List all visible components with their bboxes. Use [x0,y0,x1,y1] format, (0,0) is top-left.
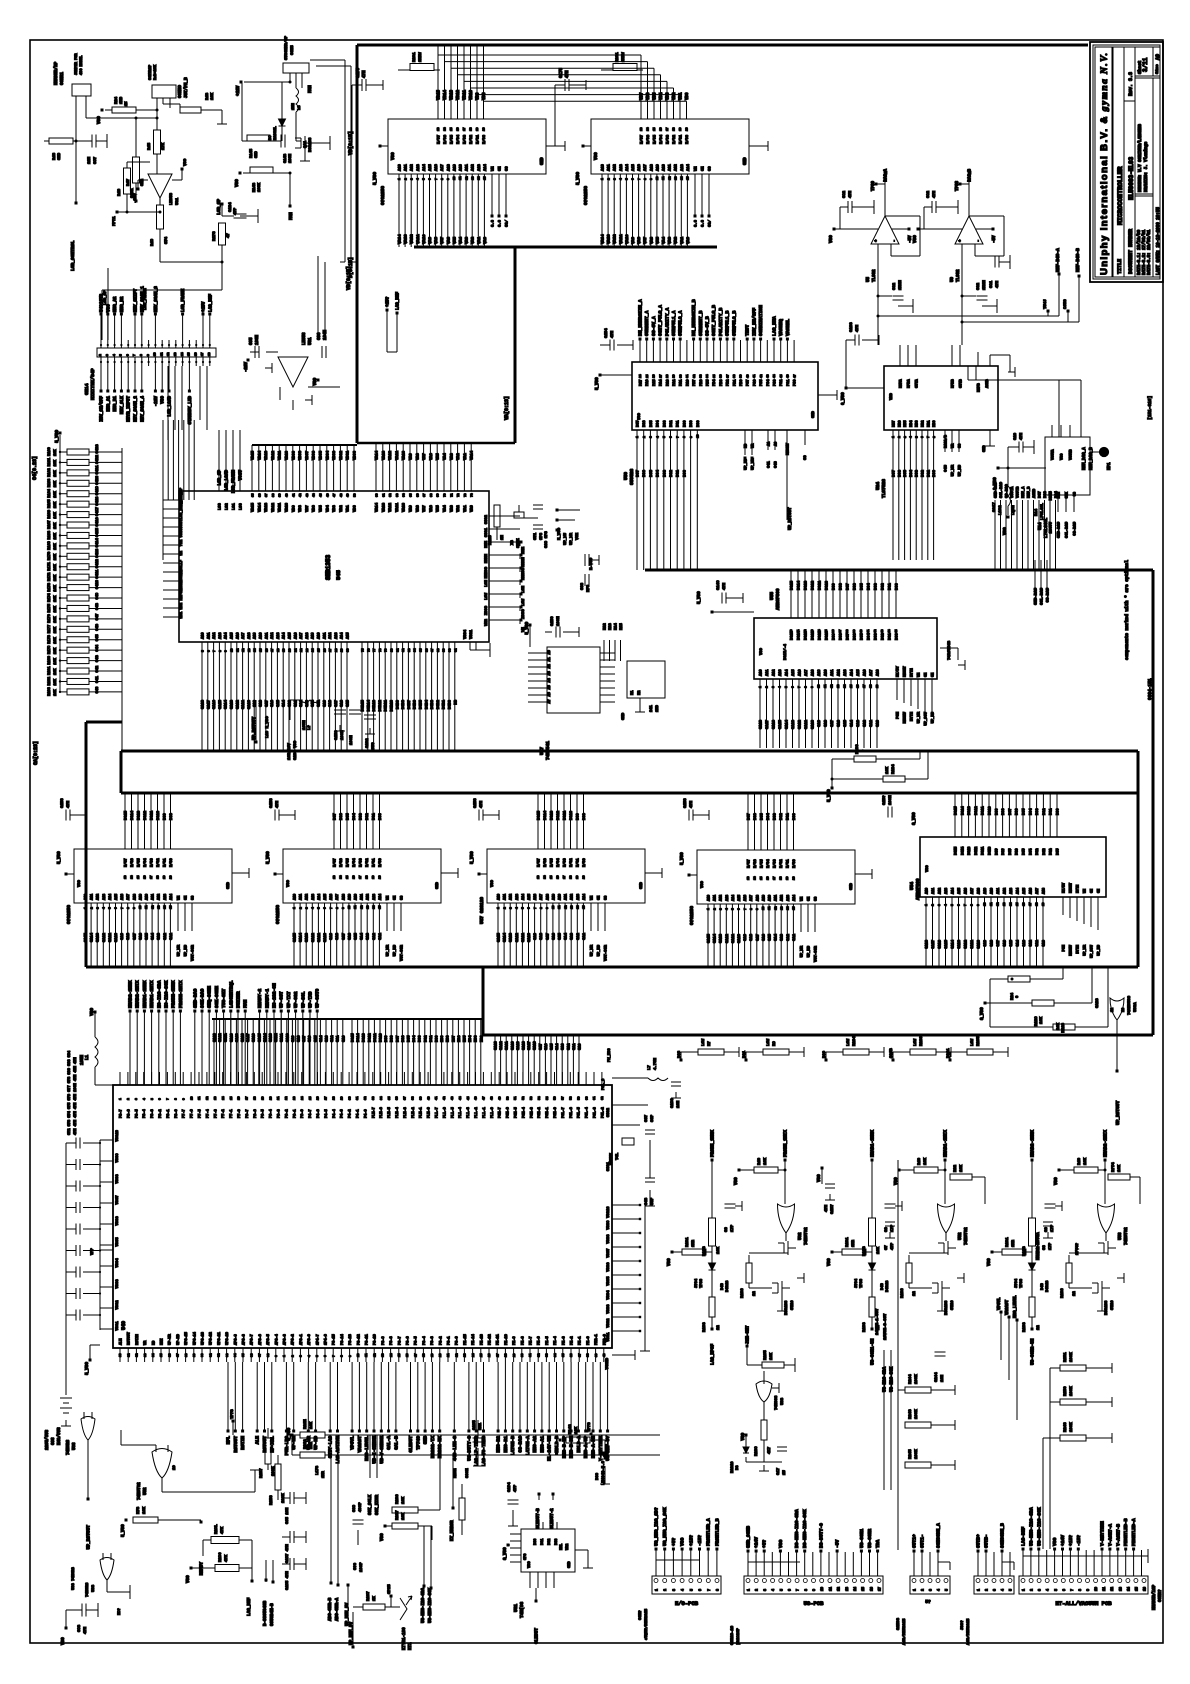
svg-text:OE: OE [1091,889,1095,893]
svg-text:C17: C17 [777,1467,781,1475]
svg-text:VA4: VA4 [444,452,448,460]
svg-text:37: 37 [839,629,842,633]
svg-text:VCC: VCC [735,1177,739,1185]
svg-text:C419: C419 [96,485,100,495]
svg-text:76: 76 [367,648,370,652]
svg-text:E/02: E/02 [672,134,677,144]
svg-text:35: 35 [252,493,255,497]
svg-text:REF_DAC_A: REF_DAC_A [1083,447,1087,470]
svg-text:READY-2: READY-2 [257,988,263,1008]
svg-text:VCSU: VCSU [180,528,184,538]
svg-text:23: 23 [293,1096,296,1100]
svg-text:R133: R133 [703,1322,707,1332]
svg-text:VD0: VD0 [686,92,690,100]
svg-text:E/04: E/04 [766,859,771,868]
svg-text:ST10: ST10 [1111,1300,1115,1310]
svg-text:U5: U5 [867,276,871,282]
svg-text:US-DUTY-C: US-DUTY-C [466,1436,472,1461]
svg-text:47N: 47N [825,1204,829,1212]
svg-text:D01: D01 [430,1036,434,1042]
svg-text:36: 36 [720,374,723,378]
svg-text:R243: R243 [909,1409,913,1419]
svg-text:D010: D010 [826,580,830,590]
svg-text:D07: D07 [1009,809,1013,815]
svg-text:PA4: PA4 [660,379,664,386]
svg-text:241: 241 [650,704,654,712]
svg-text:PZ-10: PZ-10 [505,1334,509,1345]
svg-text:VA3: VA3 [450,452,454,460]
svg-text:3: 3 [930,1589,934,1591]
svg-text:R164: R164 [48,488,52,497]
svg-text:PZ-8: PZ-8 [521,1336,525,1345]
svg-text:HENCS: HENCS [522,567,526,580]
svg-text:A14: A14 [952,888,956,894]
svg-text:83: 83 [408,648,411,652]
svg-text:CA10: CA10 [738,933,742,943]
svg-text:18: 18 [208,352,211,356]
svg-text:VA3: VA3 [466,236,470,244]
svg-text:D09: D09 [577,812,581,820]
svg-text:10UH: 10UH [303,720,307,730]
svg-text:U491STR: U491STR [100,294,105,312]
svg-text:16: 16 [144,875,147,879]
svg-text:P3-9: P3-9 [382,1336,386,1345]
svg-text:R24: R24 [115,96,119,104]
svg-text:R131: R131 [1006,1237,1010,1247]
svg-text:POL-2: POL-2 [601,1107,605,1118]
svg-text:10K: 10K [1084,1157,1088,1165]
svg-text:VA8: VA8 [416,504,420,512]
svg-text:PZ2-1: PZ2-1 [595,1334,599,1345]
svg-text:A15: A15 [347,633,351,639]
svg-text:C32: C32 [893,282,897,290]
svg-text:LAS-DEF: LAS-DEF [1021,1526,1027,1546]
svg-text:VCC: VCC [818,1174,822,1182]
svg-text:D011: D011 [819,580,823,590]
svg-text:85C528: 85C528 [629,468,635,485]
svg-text:D06: D06 [402,1036,406,1042]
svg-text:VD13: VD13 [451,89,455,100]
svg-text:58: 58 [570,1096,573,1100]
svg-text:13: 13 [248,648,251,652]
svg-text:VD12: VD12 [457,89,461,100]
svg-text:BSS138: BSS138 [945,1300,949,1315]
svg-text:A13: A13 [164,894,168,900]
svg-text:CA4: CA4 [152,932,156,940]
svg-text:8: 8 [175,1098,178,1100]
svg-text:REF_A: REF_A [1022,486,1026,498]
svg-text:TITLE: TITLE [1117,259,1123,274]
svg-text:E/05: E/05 [760,859,765,868]
svg-text:25: 25 [646,374,649,378]
svg-text:47: 47 [793,374,796,378]
svg-text:SONCODE_B: SONCODE_B [1000,1523,1006,1548]
svg-text:47K: 47K [221,1526,225,1534]
svg-text:VSS9: VSS9 [607,1220,611,1230]
svg-text:42: 42 [1036,848,1039,852]
svg-text:C?62256: C?62256 [66,905,72,924]
svg-text:A15: A15 [429,163,433,171]
svg-text:P6-4: P6-4 [270,1109,274,1118]
svg-text:VCC: VCC [926,865,930,872]
svg-text:CA10: CA10 [324,932,328,942]
svg-text:sT@N?/DMJ2015: sT@N?/DMJ2015 [644,1608,649,1640]
svg-text:CA3: CA3 [367,932,371,940]
svg-text:53: 53 [530,1096,533,1100]
svg-text:3.0: 3.0 [702,219,706,227]
svg-text:20: 20 [379,875,382,879]
svg-text:E2: E2 [638,690,642,695]
svg-text:20: 20 [793,876,796,880]
svg-text:220K: 220K [131,188,135,198]
svg-text:KEY_SCAN_2: KEY_SCAN_2 [134,396,139,422]
svg-text:71: 71 [450,493,453,497]
svg-text:BAS16: BAS16 [731,1461,735,1473]
svg-text:A17: A17 [441,163,445,171]
svg-text:220U/6V3: 220U/6V3 [45,1429,50,1450]
svg-text:10K: 10K [402,1496,406,1504]
svg-text:D0B13: D0B13 [373,699,377,711]
svg-text:VCC: VCC [668,1258,672,1266]
svg-text:R43: R43 [206,92,210,100]
svg-text:POL-6: POL-6 [570,1107,574,1118]
svg-text:2P4-6: 2P4-6 [325,1334,329,1345]
svg-text:C48: C48 [96,602,100,610]
svg-text:D01: D01 [677,421,681,427]
svg-text:E/07: E/07 [537,858,542,867]
svg-text:L173: L173 [316,1465,320,1475]
svg-text:16: 16 [194,352,197,356]
svg-text:C187 47N: C187 47N [286,1544,290,1563]
svg-text:REF-B4C-B: REF-B4C-B [1076,248,1081,272]
svg-text:D01: D01 [927,469,931,477]
svg-text:AP3-7: AP3-7 [251,1334,255,1345]
svg-text:LOW: LOW [767,1038,771,1046]
svg-text:27K: 27K [162,142,166,150]
svg-text:U14: U14 [1039,522,1043,530]
svg-text:VA1: VA1 [478,236,482,244]
svg-text:YVE: YVE [180,539,184,547]
svg-text:10K: 10K [54,511,58,518]
svg-text:CS: CS [192,896,196,900]
svg-text:GND: GND [541,157,545,165]
svg-text:CA7: CA7 [546,932,550,940]
svg-text:A16: A16 [534,894,538,900]
svg-text:VCC: VCC [235,179,240,187]
svg-text:U57 62S126: U57 62S126 [479,897,485,924]
svg-text:PROBE-1MRX: PROBE-1MRX [171,980,177,1008]
svg-text:C133 VCC: C133 VCC [294,740,298,760]
svg-text:LM358: LM358 [303,332,307,345]
svg-text:D07: D07 [748,812,752,820]
svg-text:CA8: CA8 [750,933,754,941]
svg-text:C91: C91 [990,280,994,288]
svg-text:VA6: VA6 [447,236,451,244]
svg-text:P3-7: P3-7 [398,1336,402,1345]
svg-text:5_VCC: 5_VCC [576,172,581,185]
svg-text:17P: 17P [731,1224,735,1232]
svg-text:DATE-3.1: 13/10/99: DATE-3.1: 13/10/99 [1137,229,1142,275]
svg-text:CA2: CA2 [787,933,791,941]
svg-text:P3-10: P3-10 [374,1334,378,1345]
svg-text:CA20: CA20 [230,1033,234,1042]
svg-text:43: 43 [881,629,884,633]
svg-text:T4L: T4L [616,1152,620,1160]
svg-text:VPOVL: VPOVL [350,1436,356,1450]
svg-text:24: 24 [639,374,642,378]
svg-text:E9?: E9? [118,1607,122,1615]
svg-text:CA10: CA10 [286,1033,290,1042]
svg-text:CA15: CA15 [945,940,949,949]
svg-text:CA14: CA14 [786,719,790,729]
svg-text:10K: 10K [54,470,58,477]
svg-text:P7-0: P7-0 [238,1109,242,1118]
svg-text:6P8: 6P8 [540,532,544,540]
svg-text:P3-15: P3-15 [333,1334,337,1345]
svg-text:74HCT02: 74HCT02 [805,1227,809,1245]
svg-text:CS: CS [1074,492,1078,496]
svg-text:2: 2 [1031,1589,1035,1591]
svg-text:12: 12 [206,1096,209,1100]
svg-text:R201: R201 [616,52,620,62]
svg-text:CA4: CA4 [361,932,365,940]
svg-text:VCC6: VCC6 [116,1216,120,1226]
svg-text:10K: 10K [54,480,58,487]
svg-text:38: 38 [846,629,849,633]
svg-text:A13: A13 [417,163,421,171]
svg-text:1: 1 [748,1589,752,1591]
svg-text:18: 18 [470,127,473,131]
svg-text:45: 45 [467,1096,470,1100]
svg-text:10K: 10K [54,563,58,570]
svg-text:D09: D09 [995,809,999,815]
svg-text:CA7: CA7 [335,699,339,707]
svg-text:VA6: VA6 [430,504,434,512]
svg-text:R182: R182 [48,677,52,686]
svg-text:33: 33 [811,629,814,633]
svg-text:P3-14: P3-14 [341,1333,345,1345]
svg-text:VCC: VCC [392,152,396,160]
svg-text:LM358: LM358 [170,192,174,205]
svg-text:R235: R235 [977,1036,981,1046]
svg-text:PC3: PC3 [774,380,778,386]
svg-text:VA10: VA10 [626,234,630,244]
svg-text:6: 6 [159,1098,162,1100]
svg-text:A11: A11 [608,163,612,171]
svg-text:HEAD1-20V3A: HEAD1-20V3A [1037,1232,1041,1260]
svg-text:11: 11 [1103,1587,1107,1591]
svg-text:GP25: GP25 [388,1584,392,1594]
svg-text:A12: A12 [773,670,777,676]
svg-text:32: 32 [693,374,696,378]
svg-text:36: 36 [396,1096,399,1100]
svg-text:CLK: CLK [1066,491,1070,498]
svg-text:D0B9: D0B9 [396,699,400,709]
svg-text:U24: U24 [875,482,881,490]
svg-text:BHE: BHE [522,546,526,554]
svg-text:5: 5 [151,1098,154,1100]
svg-text:A15: A15 [792,670,796,676]
svg-text:4: 4 [1047,1589,1051,1591]
svg-text:C?62256: C?62256 [583,186,589,205]
svg-text:A14: A14 [379,894,383,900]
svg-text:47N: 47N [67,800,71,808]
svg-text:R133: R133 [863,1322,867,1332]
svg-text:CA12: CA12 [103,932,107,942]
svg-text:14: 14 [181,352,184,356]
svg-text:17: 17 [463,127,466,131]
svg-text:PLL-3: PLL-3 [467,1107,471,1118]
svg-text:POL_0: POL_0 [602,1078,606,1090]
svg-text:OUT1-: OUT1- [920,1534,926,1548]
svg-text:POH-7: POH-7 [499,1107,503,1118]
svg-text:CA13: CA13 [510,932,514,942]
svg-text:P8-7: P8-7 [120,1109,124,1118]
svg-text:HEADER/2P: HEADER/2P [54,61,59,85]
svg-text:P7-2: P7-2 [222,1109,226,1118]
svg-text:A14: A14 [170,894,174,900]
svg-text:+24V: +24V [754,1537,760,1548]
svg-text:A16: A16 [435,163,439,171]
svg-text:E/07: E/07 [124,858,129,867]
svg-text:31: 31 [961,848,964,852]
svg-text:VD10: VD10 [286,450,290,460]
svg-text:SCK-SCNE: SCK-SCNE [214,986,220,1008]
svg-text:A11: A11 [565,894,569,900]
svg-text:DB3: DB3 [916,421,920,427]
svg-text:2M: 2M [501,535,505,540]
svg-text:U55: U55 [769,592,775,600]
svg-text:I05: I05 [464,1036,468,1042]
svg-text:CA8: CA8 [336,932,340,940]
svg-text:A12: A12 [97,894,101,900]
svg-text:PROBE_1MRX: PROBE_1MRX [710,1130,716,1157]
svg-text:VCC: VCC [90,1008,95,1016]
svg-text:LCDCENTRQL: LCDCENTRQL [228,980,234,1008]
svg-text:13: 13 [537,875,540,879]
svg-text:C44: C44 [96,644,100,652]
svg-text:5_VCC: 5_VCC [58,851,62,864]
svg-text:P4-4: P4-4 [333,1109,337,1118]
svg-text:D05: D05 [761,812,765,820]
svg-text:74HCT02: 74HCT02 [138,1482,142,1500]
svg-text:D02: D02 [424,1036,428,1042]
svg-text:A10: A10 [559,894,563,900]
svg-text:A10: A10 [294,894,298,900]
svg-text:P6-0: P6-0 [301,1109,305,1118]
svg-text:36: 36 [832,629,835,633]
svg-text:PC0: PC0 [794,380,798,386]
svg-text:REF0?: REF0? [180,588,184,600]
svg-text:CA0: CA0 [342,1036,346,1042]
svg-text:E/03: E/03 [150,858,155,867]
svg-text:CA2: CA2 [1030,940,1034,946]
svg-text:B4S18: B4S18 [726,1280,730,1292]
svg-text:PZ-5: PZ-5 [546,1336,550,1345]
svg-text:NRL: NRL [560,1544,564,1550]
svg-text:-15?: -15? [697,1535,703,1546]
svg-text:D08: D08 [391,1036,395,1042]
svg-text:AM29F800: AM29F800 [915,878,921,900]
svg-text:5_VCC: 5_VCC [828,789,832,802]
svg-text:D09: D09 [164,812,168,820]
svg-text:5_VCC: 5_VCC [288,1428,292,1441]
svg-text:LAS_RPOF: LAS_RPOF [711,1344,716,1365]
svg-text:A12: A12 [720,895,724,901]
svg-text:VCC: VCC [638,412,642,420]
svg-text:LAST SAVE: 10-19-2000 10:55: LAST SAVE: 10-19-2000 10:55 [1157,207,1161,275]
svg-text:I04: I04 [469,1035,473,1042]
svg-text:R73: R73 [137,1506,141,1514]
svg-text:47P: 47P [234,207,238,215]
svg-text:25: 25 [309,1096,312,1100]
svg-text:CA17: CA17 [528,1041,532,1050]
svg-text:C1?4: C1?4 [508,1482,512,1492]
svg-text:CA17: CA17 [932,940,936,949]
svg-text:OSC2: OSC2 [607,1107,611,1117]
svg-text:A16: A16 [744,895,748,901]
svg-text:D014: D014 [544,810,548,820]
svg-text:100N: 100N [256,334,260,345]
svg-text:U50: U50 [623,472,629,480]
svg-text:R173: R173 [48,583,52,592]
svg-text:D00: D00 [933,469,937,477]
svg-text:D01: D01 [373,812,377,820]
svg-text:14: 14 [1127,1587,1131,1591]
svg-text:3/11: 3/11 [1142,57,1149,72]
svg-text:10: 10 [154,352,157,356]
svg-text:66: 66 [416,493,419,497]
svg-text:15: 15 [550,875,553,879]
svg-text:A16: A16 [121,894,125,900]
svg-text:LAS_DEF: LAS_DEF [208,294,213,312]
svg-text:P3-2: P3-2 [439,1336,443,1345]
svg-text:U54: U54 [909,882,915,890]
svg-text:10K: 10K [924,1157,928,1165]
svg-text:37: 37 [726,374,729,378]
svg-text:CA10: CA10 [978,940,982,949]
svg-text:A10: A10 [663,163,667,171]
svg-text:GND: GND [812,410,816,418]
svg-text:47N: 47N [480,800,484,808]
svg-text:P3-11: P3-11 [366,1334,370,1345]
svg-text:A11: A11 [152,894,156,900]
svg-text:23: 23 [306,648,309,652]
svg-text:UP-TX0: UP-TX0 [308,991,314,1008]
svg-text:22: 22 [913,1291,917,1296]
svg-text:D09: D09 [833,582,837,590]
svg-text:CA8: CA8 [260,699,264,707]
svg-text:LCD_CP: LCD_CP [104,290,108,305]
svg-text:PZ-1: PZ-1 [579,1336,583,1345]
svg-text:R250: R250 [1064,1386,1068,1396]
svg-text:C6: C6 [725,1227,729,1232]
svg-text:A19: A19 [453,163,457,171]
svg-text:PLL-1: PLL-1 [483,1107,487,1118]
svg-text:A19: A19 [139,894,143,900]
svg-text:20: 20 [686,127,689,131]
svg-text:R9: R9 [773,1041,777,1046]
svg-text:1N1M: 1N1M [983,280,987,290]
svg-text:18: 18 [157,875,160,879]
svg-text:A19: A19 [656,163,660,171]
svg-text:CA5: CA5 [347,699,351,707]
svg-text:RESET: RESET [904,665,908,677]
svg-text:18: 18 [570,875,573,879]
svg-text:VCC: VCC [106,304,111,312]
svg-text:CA8: CA8 [127,932,131,940]
svg-text:CA5: CA5 [1010,940,1014,946]
